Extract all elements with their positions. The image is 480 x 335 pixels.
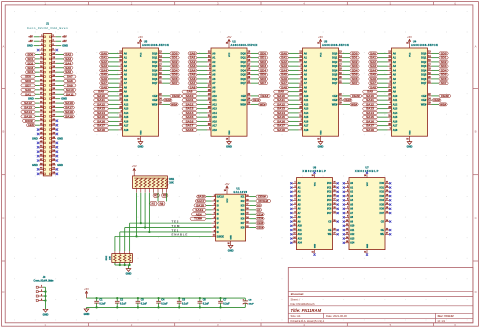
svg-text:OE0#: OE0# bbox=[257, 226, 264, 230]
svg-text:VCC: VCC bbox=[314, 181, 316, 186]
svg-text:A0: A0 bbox=[257, 204, 261, 208]
svg-text:SD0: SD0 bbox=[172, 51, 178, 55]
svg-text:A14: A14 bbox=[212, 112, 217, 115]
svg-text:GND: GND bbox=[27, 44, 33, 48]
svg-text:2: 2 bbox=[41, 290, 42, 292]
svg-text:SD2: SD2 bbox=[441, 60, 447, 64]
svg-text:A10: A10 bbox=[124, 95, 129, 98]
svg-text:A11: A11 bbox=[393, 99, 398, 102]
svg-text:I/O4: I/O4 bbox=[380, 199, 385, 202]
svg-text:DQ0: DQ0 bbox=[421, 52, 427, 55]
capacitor C4 0.1uF bbox=[156, 297, 168, 309]
svg-text:VSS: VSS bbox=[409, 130, 411, 135]
svg-text:GND: GND bbox=[57, 136, 63, 140]
svg-text:SD7: SD7 bbox=[441, 81, 447, 85]
svg-text:10: 10 bbox=[227, 243, 229, 245]
svg-text:SA0: SA0 bbox=[370, 51, 376, 55]
svg-text:SA1: SA1 bbox=[370, 56, 376, 60]
svg-text:A11: A11 bbox=[212, 99, 217, 102]
wire GND rail bbox=[87, 306, 246, 308]
IC U1 GAL16V8 address decoder bbox=[212, 186, 250, 245]
svg-text:SA4: SA4 bbox=[281, 68, 287, 72]
svg-text:SA6: SA6 bbox=[190, 77, 196, 81]
svg-text:DQ5: DQ5 bbox=[421, 74, 427, 77]
svg-text:VCC: VCC bbox=[367, 181, 369, 186]
svg-text:AS6C4008-55PCN: AS6C4008-55PCN bbox=[322, 43, 349, 47]
svg-text:KiCad E.D.A. kicad (5.1.9)-1: KiCad E.D.A. kicad (5.1.9)-1 bbox=[291, 319, 325, 323]
svg-text:DQ2: DQ2 bbox=[152, 61, 158, 64]
svg-text:VCC: VCC bbox=[409, 52, 411, 57]
global labels D0-D7 at U4 right pins bbox=[432, 51, 449, 85]
capacitor C8 10uF (polarized) bbox=[243, 298, 255, 307]
svg-text:GND: GND bbox=[228, 248, 234, 252]
svg-text:B: B bbox=[475, 130, 477, 134]
svg-text:SA0: SA0 bbox=[25, 88, 31, 92]
svg-text:SA2: SA2 bbox=[65, 53, 71, 57]
svg-text:WE#: WE# bbox=[351, 102, 357, 106]
svg-text:DQ6: DQ6 bbox=[332, 78, 338, 81]
svg-text:Conn_02x32_Odd_Even: Conn_02x32_Odd_Even bbox=[27, 26, 68, 30]
capacitor C5 0.1uF bbox=[177, 297, 189, 309]
svg-text:SA19: SA19 bbox=[65, 114, 74, 118]
svg-text:SD5: SD5 bbox=[172, 73, 178, 77]
svg-text:I/O0: I/O0 bbox=[327, 183, 332, 185]
svg-text:+5V: +5V bbox=[28, 40, 33, 43]
svg-text:TE2: TE2 bbox=[172, 219, 180, 223]
svg-text:SA2: SA2 bbox=[101, 60, 107, 64]
svg-text:SA11: SA11 bbox=[97, 98, 106, 102]
svg-text:GND: GND bbox=[314, 243, 316, 248]
svg-text:SA12: SA12 bbox=[277, 102, 286, 106]
global labels at RN1 pins 6-9 bbox=[150, 193, 168, 206]
svg-text:A12: A12 bbox=[304, 103, 309, 106]
svg-text:SD3: SD3 bbox=[27, 66, 33, 70]
svg-text:DQ2: DQ2 bbox=[421, 61, 427, 64]
svg-text:32: 32 bbox=[137, 43, 139, 45]
svg-text:A17: A17 bbox=[124, 125, 129, 128]
svg-text:DQ7: DQ7 bbox=[332, 82, 338, 85]
svg-text:SA11: SA11 bbox=[366, 98, 375, 102]
svg-text:ENABLE: ENABLE bbox=[172, 233, 189, 237]
svg-text:RN1: RN1 bbox=[169, 178, 174, 181]
svg-text:SA18: SA18 bbox=[277, 128, 286, 132]
svg-text:SD5: SD5 bbox=[441, 73, 447, 77]
svg-text:SA2: SA2 bbox=[281, 60, 287, 64]
svg-text:I/O5: I/O5 bbox=[380, 204, 385, 206]
svg-text:3: 3 bbox=[41, 294, 42, 296]
svg-text:R8: R8 bbox=[159, 202, 163, 206]
svg-text:28: 28 bbox=[312, 175, 314, 177]
svg-text:SA4: SA4 bbox=[65, 61, 71, 65]
svg-text:SA6: SA6 bbox=[101, 77, 107, 81]
svg-text:DQ0: DQ0 bbox=[152, 52, 158, 55]
svg-text:A11: A11 bbox=[298, 229, 303, 232]
global labels at U1 left inputs bbox=[190, 195, 212, 221]
svg-text:A18: A18 bbox=[393, 129, 398, 132]
svg-text:DQ1: DQ1 bbox=[332, 57, 338, 60]
svg-text:CE0#: CE0# bbox=[258, 195, 267, 199]
svg-text:DQ4: DQ4 bbox=[421, 69, 427, 72]
svg-text:SA10: SA10 bbox=[366, 94, 375, 98]
svg-text:+5V: +5V bbox=[318, 35, 323, 39]
svg-text:16: 16 bbox=[406, 139, 408, 141]
svg-text:TE1: TE1 bbox=[172, 228, 180, 232]
svg-text:CE#: CE# bbox=[241, 95, 246, 98]
svg-text:SD4: SD4 bbox=[27, 70, 33, 74]
svg-text:20: 20 bbox=[224, 190, 226, 192]
svg-text:TCM: TCM bbox=[172, 224, 181, 228]
global labels CE3#/OE3#/WE# at U4 control pins bbox=[432, 94, 451, 107]
svg-text:A10: A10 bbox=[212, 95, 217, 98]
svg-text:+5V: +5V bbox=[225, 182, 230, 186]
svg-text:SA13: SA13 bbox=[186, 107, 195, 111]
svg-text:CE2#: CE2# bbox=[257, 217, 264, 221]
svg-text:SA7: SA7 bbox=[370, 81, 376, 85]
svg-text:SA17: SA17 bbox=[97, 124, 106, 128]
ground GND below U4 bbox=[407, 142, 413, 149]
svg-text:SA1: SA1 bbox=[101, 56, 107, 60]
svg-text:U3: U3 bbox=[324, 39, 328, 43]
svg-text:DQ3: DQ3 bbox=[241, 65, 247, 68]
svg-text:A12: A12 bbox=[298, 233, 303, 236]
global labels CE0#/OE0#/WE# at U5 control pins bbox=[163, 94, 182, 107]
svg-text:U5: U5 bbox=[144, 39, 148, 43]
svg-text:A15: A15 bbox=[212, 116, 217, 119]
svg-text:DQ3: DQ3 bbox=[421, 65, 427, 68]
svg-text:SD3: SD3 bbox=[441, 64, 447, 68]
svg-text:Conn_01x04_Male: Conn_01x04_Male bbox=[34, 280, 55, 283]
svg-text:32: 32 bbox=[406, 43, 408, 45]
svg-text:I/O1: I/O1 bbox=[380, 187, 385, 189]
svg-text:0.1uF: 0.1uF bbox=[223, 303, 230, 306]
svg-text:SA6: SA6 bbox=[281, 77, 287, 81]
svg-text:SA18: SA18 bbox=[65, 110, 74, 114]
svg-text:SA1: SA1 bbox=[25, 92, 31, 96]
global labels A0-A18 at U3 left pins bbox=[274, 51, 299, 131]
resistor network RN2 10K (4 resistors to GND) bbox=[106, 251, 132, 265]
svg-text:SA10: SA10 bbox=[186, 94, 195, 98]
svg-text:A13: A13 bbox=[393, 108, 398, 111]
svg-text:+5V: +5V bbox=[62, 40, 67, 43]
svg-text:A11: A11 bbox=[350, 229, 355, 232]
wire ENABLE net: U1 pin11 to RN2 pin1 bbox=[115, 236, 212, 251]
svg-text:SA3: SA3 bbox=[65, 57, 71, 61]
IC U3 AS6C4008-55PCN (512Kx8 SRAM) bbox=[322, 39, 349, 47]
svg-text:A18: A18 bbox=[124, 129, 129, 132]
svg-text:+5V: +5V bbox=[84, 287, 89, 291]
svg-text:RN2: RN2 bbox=[106, 255, 108, 260]
svg-text:A13: A13 bbox=[350, 237, 355, 240]
power +5V at U2 VCC bbox=[227, 35, 232, 42]
svg-text:Title: FN11RAM: Title: FN11RAM bbox=[291, 308, 322, 313]
svg-text:SA18: SA18 bbox=[196, 204, 205, 208]
svg-text:RFSH#: RFSH# bbox=[258, 199, 268, 203]
svg-text:CE0#: CE0# bbox=[172, 94, 181, 98]
svg-text:I/O2: I/O2 bbox=[327, 192, 332, 194]
svg-text:SA7: SA7 bbox=[281, 81, 287, 85]
svg-text:OE#: OE# bbox=[241, 99, 247, 102]
svg-text:0.1uF: 0.1uF bbox=[161, 303, 168, 306]
svg-text:SA17: SA17 bbox=[65, 106, 74, 110]
svg-text:I/O0: I/O0 bbox=[380, 183, 385, 185]
svg-text:A12: A12 bbox=[212, 103, 217, 106]
svg-text:DQ1: DQ1 bbox=[421, 57, 427, 60]
ground GND below J3 bbox=[43, 309, 49, 316]
svg-text:SA8: SA8 bbox=[281, 85, 287, 89]
capacitor C7 0.1uF bbox=[218, 297, 230, 309]
global labels CE2#/OE2#/WE# at U3 control pins bbox=[343, 94, 362, 107]
svg-text:A14: A14 bbox=[304, 112, 309, 115]
svg-text:AS6C4008-55PCN: AS6C4008-55PCN bbox=[231, 43, 258, 47]
svg-text:10K: 10K bbox=[110, 256, 112, 260]
svg-text:R6: R6 bbox=[163, 194, 167, 198]
title block bbox=[288, 268, 473, 324]
svg-text:Date: 2021-06-30: Date: 2021-06-30 bbox=[326, 314, 347, 318]
svg-text:U2: U2 bbox=[232, 39, 236, 43]
svg-text:SA14: SA14 bbox=[24, 110, 33, 114]
svg-text:SA12: SA12 bbox=[24, 101, 33, 105]
svg-text:32: 32 bbox=[226, 43, 228, 45]
svg-text:SA5: SA5 bbox=[65, 66, 71, 70]
global labels CE1#/OE1#/WE# at U2 control pins bbox=[251, 94, 270, 107]
svg-text:OE#: OE# bbox=[152, 99, 158, 102]
svg-text:GND: GND bbox=[367, 243, 369, 248]
svg-text:SA7: SA7 bbox=[67, 75, 73, 79]
svg-text:VCC: VCC bbox=[229, 52, 231, 57]
svg-text:DQ3: DQ3 bbox=[152, 65, 158, 68]
svg-text:0.1uF: 0.1uF bbox=[99, 303, 106, 306]
svg-text:CE1#: CE1# bbox=[257, 212, 264, 216]
svg-text:SD0: SD0 bbox=[27, 53, 33, 57]
svg-text:SD6: SD6 bbox=[260, 77, 266, 81]
svg-text:DQ2: DQ2 bbox=[332, 61, 338, 64]
svg-text:SA16: SA16 bbox=[186, 119, 195, 123]
svg-text:A17: A17 bbox=[212, 125, 217, 128]
J1 pin attachments: power labels, global labels, no-connects bbox=[21, 36, 76, 175]
svg-text:A16: A16 bbox=[393, 120, 398, 123]
svg-text:0.1uF: 0.1uF bbox=[182, 303, 189, 306]
svg-text:SA18: SA18 bbox=[186, 128, 195, 132]
svg-text:SD7: SD7 bbox=[260, 81, 266, 85]
svg-text:I1/CLK: I1/CLK bbox=[217, 197, 225, 199]
svg-text:SA1: SA1 bbox=[190, 56, 196, 60]
wire +5V rail bbox=[87, 297, 246, 299]
svg-text:0.1uF: 0.1uF bbox=[203, 303, 210, 306]
svg-text:32: 32 bbox=[317, 43, 319, 45]
global labels D0-D7 at U5 right pins bbox=[163, 51, 180, 85]
svg-text:SA9: SA9 bbox=[367, 90, 373, 94]
svg-text:SA15: SA15 bbox=[277, 115, 286, 119]
svg-text:GND: GND bbox=[126, 272, 132, 276]
svg-text:A12: A12 bbox=[124, 103, 129, 106]
svg-text:CS: CS bbox=[328, 221, 332, 223]
svg-text:SA3: SA3 bbox=[281, 64, 287, 68]
svg-text:I/O4: I/O4 bbox=[327, 199, 332, 202]
svg-text:U1: U1 bbox=[236, 186, 240, 190]
svg-text:GND: GND bbox=[84, 312, 90, 316]
ground GND below RN2 bbox=[126, 269, 132, 276]
svg-text:I/O3: I/O3 bbox=[327, 196, 332, 198]
svg-text:OE3#: OE3# bbox=[433, 98, 440, 102]
ground GND at decoupling rail bbox=[84, 307, 90, 316]
connector J1 Conn_02x32_Odd_Even bbox=[27, 22, 68, 176]
svg-text:SA8: SA8 bbox=[67, 79, 73, 83]
svg-text:DQ5: DQ5 bbox=[332, 74, 338, 77]
svg-text:SA5: SA5 bbox=[370, 73, 376, 77]
svg-text:A10: A10 bbox=[304, 95, 309, 98]
svg-text:SA15: SA15 bbox=[97, 115, 106, 119]
svg-text:16: 16 bbox=[226, 139, 228, 141]
svg-text:SA2: SA2 bbox=[190, 60, 196, 64]
svg-text:A16: A16 bbox=[124, 120, 129, 123]
svg-text:A14: A14 bbox=[298, 242, 303, 245]
svg-text:SA5: SA5 bbox=[190, 73, 196, 77]
svg-text:A1: A1 bbox=[257, 208, 261, 212]
svg-text:14: 14 bbox=[364, 251, 366, 254]
svg-text:1: 1 bbox=[41, 286, 42, 288]
svg-text:GND: GND bbox=[62, 44, 68, 48]
svg-text:SA6: SA6 bbox=[370, 77, 376, 81]
svg-text:SA16: SA16 bbox=[65, 101, 74, 105]
svg-text:A18: A18 bbox=[304, 129, 309, 132]
svg-text:VSS: VSS bbox=[140, 130, 142, 135]
svg-text:SA4: SA4 bbox=[370, 68, 376, 72]
svg-text:I/O6: I/O6 bbox=[380, 209, 385, 211]
svg-text:I10/OE: I10/OE bbox=[217, 236, 225, 238]
svg-text:SA7: SA7 bbox=[101, 81, 107, 85]
svg-text:GND: GND bbox=[138, 145, 144, 149]
svg-text:VCC: VCC bbox=[140, 52, 142, 57]
wire RN2 bottom pins to GND rail bbox=[115, 262, 131, 268]
svg-text:AS6C4008-55PCN: AS6C4008-55PCN bbox=[142, 43, 169, 47]
svg-text:SD7: SD7 bbox=[352, 81, 358, 85]
svg-text:A18: A18 bbox=[212, 129, 217, 132]
svg-text:CE#: CE# bbox=[152, 95, 157, 98]
svg-text:SD5: SD5 bbox=[25, 75, 31, 79]
capacitor C2 0.1uF bbox=[115, 297, 127, 309]
svg-text:SA11: SA11 bbox=[277, 98, 286, 102]
svg-text:SA7: SA7 bbox=[190, 81, 196, 85]
svg-text:OE#: OE# bbox=[332, 99, 338, 102]
svg-text:SA10: SA10 bbox=[97, 94, 106, 98]
svg-text:A13: A13 bbox=[124, 108, 129, 111]
svg-text:SA18: SA18 bbox=[97, 128, 106, 132]
svg-text:DQ2: DQ2 bbox=[241, 61, 247, 64]
svg-text:A14: A14 bbox=[124, 112, 129, 115]
svg-text:●houmel: ●houmel bbox=[291, 292, 304, 296]
svg-text:SD1: SD1 bbox=[27, 57, 33, 61]
svg-text:DQ3: DQ3 bbox=[332, 65, 338, 68]
svg-text:SD2: SD2 bbox=[172, 60, 178, 64]
svg-text:SA12: SA12 bbox=[186, 102, 195, 106]
svg-text:SA2: SA2 bbox=[370, 60, 376, 64]
svg-text:DQ4: DQ4 bbox=[332, 69, 338, 72]
svg-text:SD0: SD0 bbox=[352, 51, 358, 55]
svg-text:SA10: SA10 bbox=[277, 94, 286, 98]
svg-text:DQ6: DQ6 bbox=[421, 78, 427, 81]
power +5V at U4 VCC bbox=[407, 35, 412, 42]
svg-text:A15: A15 bbox=[124, 116, 129, 119]
svg-text:A17: A17 bbox=[304, 125, 309, 128]
svg-text:SA13: SA13 bbox=[366, 107, 375, 111]
svg-text:A10: A10 bbox=[393, 95, 398, 98]
svg-text:SA3: SA3 bbox=[101, 64, 107, 68]
svg-text:SD4: SD4 bbox=[441, 68, 447, 72]
svg-text:DQ1: DQ1 bbox=[152, 57, 158, 60]
wire TE2 net: U1 pin7 to RN2 pin4 bbox=[130, 223, 212, 251]
svg-text:I/O1: I/O1 bbox=[327, 187, 332, 189]
svg-text:SD0: SD0 bbox=[260, 51, 266, 55]
IC U7 XM62256BLP (unused SRAM, all pins no-connect) bbox=[343, 167, 392, 256]
svg-text:A10: A10 bbox=[350, 225, 355, 228]
svg-text:CE1#: CE1# bbox=[260, 94, 269, 98]
svg-text:I/O6: I/O6 bbox=[327, 209, 332, 211]
svg-text:SA14: SA14 bbox=[186, 111, 195, 115]
svg-text:SA19: SA19 bbox=[195, 208, 204, 212]
svg-text:A: A bbox=[2, 45, 4, 49]
net labels TE2 TCM TE1 ENABLE bbox=[172, 219, 189, 236]
svg-text:DQ6: DQ6 bbox=[152, 78, 158, 81]
svg-text:SA15: SA15 bbox=[366, 115, 375, 119]
svg-text:DQ6: DQ6 bbox=[241, 78, 247, 81]
ground GND below U3 bbox=[318, 142, 324, 149]
svg-text:WE#: WE# bbox=[421, 103, 427, 106]
svg-text:GND: GND bbox=[61, 97, 67, 101]
power +5V at RN1 common pin bbox=[132, 164, 137, 171]
svg-text:SA3: SA3 bbox=[370, 64, 376, 68]
svg-text:A12: A12 bbox=[350, 233, 355, 236]
svg-text:SD4: SD4 bbox=[172, 68, 178, 72]
svg-text:DQ5: DQ5 bbox=[241, 74, 247, 77]
IC U6 XM62256BLP (unused SRAM, all pins no-connect) bbox=[290, 167, 339, 256]
svg-text:+5V: +5V bbox=[62, 36, 67, 39]
svg-text:WE#: WE# bbox=[260, 102, 266, 106]
svg-text:SD0: SD0 bbox=[441, 51, 447, 55]
svg-text:+5V: +5V bbox=[132, 164, 137, 168]
svg-text:WE: WE bbox=[328, 234, 332, 236]
svg-text:U4: U4 bbox=[413, 39, 417, 43]
svg-text:CE3#: CE3# bbox=[257, 221, 264, 225]
svg-text:SD1: SD1 bbox=[172, 56, 178, 60]
svg-text:SA9: SA9 bbox=[278, 90, 284, 94]
svg-text:AEN: AEN bbox=[28, 123, 34, 127]
svg-text:D: D bbox=[2, 290, 4, 294]
svg-text:SA13: SA13 bbox=[97, 107, 106, 111]
IC U5 AS6C4008-55PCN (512Kx8 SRAM) bbox=[142, 39, 169, 47]
svg-text:GND: GND bbox=[43, 312, 49, 316]
svg-text:Size: A4: Size: A4 bbox=[291, 314, 301, 318]
svg-text:SD3: SD3 bbox=[352, 64, 358, 68]
IC U4 AS6C4008-55PCN (512Kx8 SRAM) bbox=[411, 39, 438, 47]
svg-text:WE#: WE# bbox=[171, 102, 177, 106]
svg-text:SA17: SA17 bbox=[366, 124, 375, 128]
svg-text:SA6: SA6 bbox=[65, 70, 71, 74]
svg-text:SA9: SA9 bbox=[67, 83, 73, 87]
svg-text:GND: GND bbox=[57, 163, 63, 167]
svg-text:Sheet: /: Sheet: / bbox=[291, 297, 301, 301]
svg-text:OE1#: OE1# bbox=[253, 98, 260, 102]
svg-text:A13: A13 bbox=[298, 237, 303, 240]
svg-text:+5V: +5V bbox=[407, 35, 412, 39]
svg-text:I/O7: I/O7 bbox=[327, 213, 332, 215]
svg-text:SA18: SA18 bbox=[366, 128, 375, 132]
svg-text:WE#: WE# bbox=[152, 103, 158, 106]
svg-text:WE#: WE# bbox=[332, 103, 338, 106]
svg-text:CE#: CE# bbox=[421, 95, 426, 98]
svg-text:SD4: SD4 bbox=[352, 68, 358, 72]
svg-text:DQ4: DQ4 bbox=[152, 69, 158, 72]
svg-text:SD3: SD3 bbox=[260, 64, 266, 68]
